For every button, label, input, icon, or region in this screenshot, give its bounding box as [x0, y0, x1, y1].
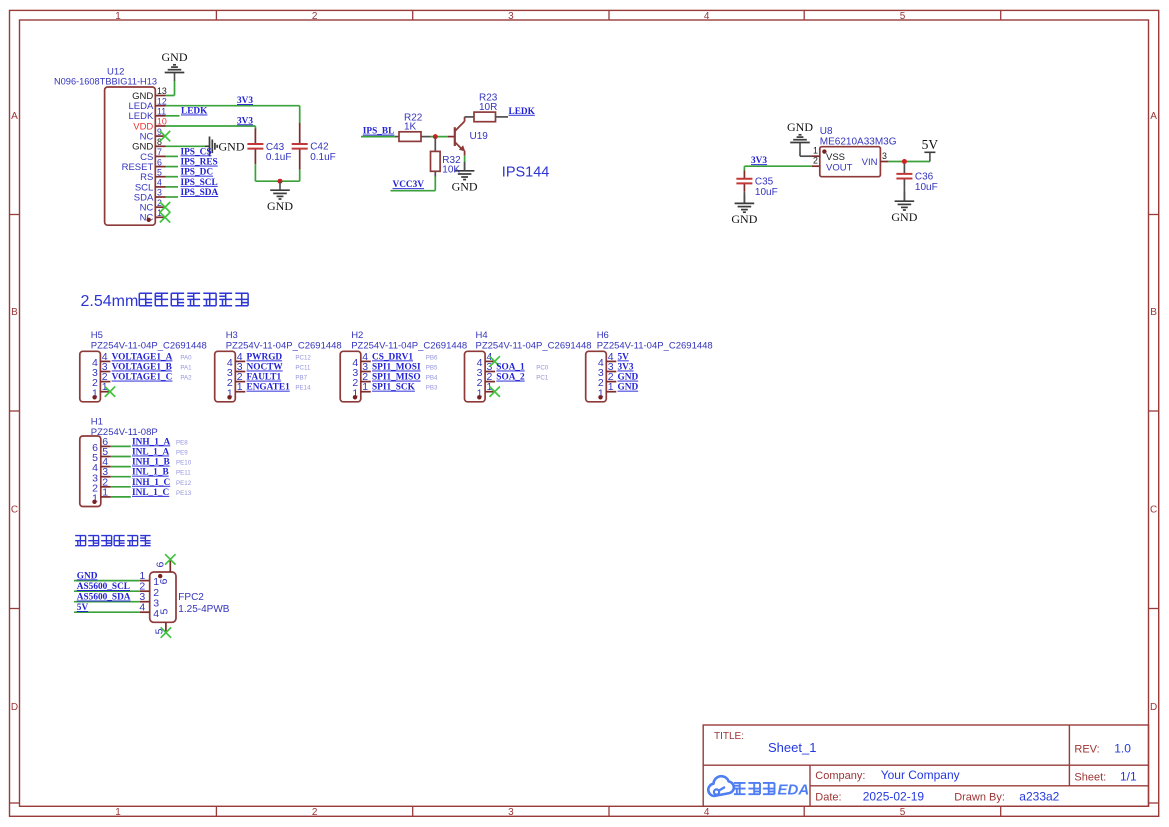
svg-text:PZ254V-11-04P_C2691448: PZ254V-11-04P_C2691448 [476, 340, 592, 351]
ruler ticks top [216, 10, 1000, 20]
net label NOCTW [247, 363, 284, 373]
svg-text:GND: GND [77, 571, 98, 581]
mcu pin name PC11 [295, 365, 311, 372]
svg-text:CS_DRV1: CS_DRV1 [372, 352, 413, 362]
svg-text:LEDK: LEDK [181, 107, 208, 117]
svg-text:PE12: PE12 [176, 480, 192, 487]
svg-text:AS5600_SCL: AS5600_SCL [77, 582, 130, 592]
svg-text:13: 13 [157, 86, 167, 96]
svg-text:5V: 5V [618, 352, 630, 362]
no-connect X H5 pin1 [105, 387, 115, 397]
svg-text:5V: 5V [77, 603, 89, 613]
svg-text:3V3: 3V3 [751, 156, 767, 166]
svg-text:10uF: 10uF [915, 182, 938, 193]
svg-text:6: 6 [157, 157, 162, 167]
svg-text:1: 1 [813, 146, 818, 156]
svg-text:PE9: PE9 [176, 450, 188, 457]
net label 5V [77, 603, 89, 613]
no-connect X H4 pin4 [490, 356, 500, 366]
no-connect X pin1 [160, 212, 170, 222]
net label INH_1_C [132, 478, 170, 488]
svg-text:4: 4 [704, 807, 710, 818]
power flag 5V [922, 137, 939, 162]
ruler letters left [11, 111, 18, 713]
svg-text:SOA_2: SOA_2 [496, 373, 525, 383]
wire H1 INL_1_C [111, 496, 131, 498]
svg-text:PA2: PA2 [180, 375, 192, 382]
svg-text:IPS144: IPS144 [502, 165, 550, 181]
wire pin10 3V3 to C43 [166, 126, 256, 130]
title block frame [703, 725, 1148, 806]
svg-text:2: 2 [312, 807, 318, 818]
connector H2 PZ254V-11-04P_C2691448 [340, 330, 467, 402]
net label INL_1_B [132, 468, 169, 478]
svg-text:VSS: VSS [826, 152, 845, 163]
junction at cap ground [278, 179, 283, 184]
wire 3V3 to U8 VOUT [744, 166, 812, 170]
svg-text:2.54mm: 2.54mm [81, 293, 139, 310]
connector H4 PZ254V-11-04P_C2691448 [465, 330, 592, 402]
svg-text:Date:: Date: [815, 791, 841, 803]
svg-text:3V3: 3V3 [237, 116, 253, 126]
svg-text:PZ254V-11-04P_C2691448: PZ254V-11-04P_C2691448 [597, 340, 713, 351]
svg-text:PWRGD: PWRGD [247, 352, 283, 362]
net label VOLTAGE1_B [112, 363, 172, 373]
mcu pin name PA1 [180, 365, 192, 372]
ruler numbers bottom [115, 807, 906, 818]
svg-text:PB6: PB6 [426, 354, 438, 361]
svg-text:GND: GND [219, 140, 245, 154]
wire U8 VIN to 5V [888, 161, 930, 163]
wire H1 INH_1_B [111, 466, 131, 468]
svg-text:IPS_SCL: IPS_SCL [181, 178, 218, 188]
svg-text:C: C [1150, 505, 1157, 516]
svg-text:PE14: PE14 [295, 385, 311, 392]
no-connect X H4 pin1 [490, 387, 500, 397]
svg-text:Drawn By:: Drawn By: [954, 791, 1005, 803]
mcu pin name PB7 [295, 375, 307, 382]
svg-text:5: 5 [159, 609, 171, 615]
wires pins 7-3 stubs [166, 156, 179, 197]
svg-text:INH_1_A: INH_1_A [132, 437, 171, 447]
capacitor C35 10uF [736, 171, 777, 204]
logo JLCEDA [708, 776, 809, 798]
svg-text:INL_1_A: INL_1_A [132, 448, 169, 458]
net label IPS_SDA [181, 188, 219, 198]
svg-text:INL_1_C: INL_1_C [132, 488, 169, 498]
ruler ticks left [10, 215, 20, 804]
svg-text:PE13: PE13 [176, 490, 192, 497]
mcu pin name PB6 [426, 354, 438, 361]
svg-text:VCC3V: VCC3V [393, 180, 425, 190]
text 2.54mm board-to-board header [81, 293, 249, 310]
svg-text:3V3: 3V3 [618, 363, 634, 373]
svg-text:TITLE:: TITLE: [714, 731, 744, 742]
net label SOA_2 [496, 373, 525, 383]
net label SPI1_MISO [372, 373, 421, 383]
svg-text:ENGATE1: ENGATE1 [247, 383, 291, 393]
svg-text:3V3: 3V3 [237, 96, 253, 106]
net label GND [77, 571, 98, 581]
ruler ticks bottom [216, 806, 1000, 816]
svg-text:U19: U19 [470, 131, 489, 142]
svg-text:FAULT1: FAULT1 [247, 373, 282, 383]
svg-text:PZ254V-11-04P_C2691448: PZ254V-11-04P_C2691448 [226, 340, 342, 351]
svg-text:1/1: 1/1 [1120, 769, 1137, 783]
mcu pin name PC1 [536, 375, 549, 382]
capacitor C42 0.1uF [292, 123, 336, 181]
svg-text:C: C [11, 505, 18, 516]
wire H1 INH_1_C [111, 486, 131, 488]
svg-text:PA1: PA1 [180, 365, 192, 372]
svg-text:a233a2: a233a2 [1019, 789, 1059, 803]
ground GND above U8 pin1 [787, 120, 813, 156]
svg-text:PC12: PC12 [295, 354, 311, 361]
text IPS144 [502, 165, 550, 181]
mcu pin name PC12 [295, 354, 311, 361]
svg-text:5: 5 [900, 807, 906, 818]
svg-text:REV:: REV: [1074, 743, 1099, 755]
wire R22 to base junction [421, 136, 455, 138]
ground GND below C36 [891, 192, 917, 224]
wire IPS_BL to R22 [361, 136, 399, 138]
svg-text:2: 2 [813, 156, 818, 166]
svg-text:10uF: 10uF [755, 187, 778, 198]
svg-text:VOLTAGE1_A: VOLTAGE1_A [112, 352, 173, 362]
mcu pin name PB4 [426, 375, 438, 382]
svg-text:11: 11 [157, 107, 166, 117]
svg-text:PZ254V-11-04P_C2691448: PZ254V-11-04P_C2691448 [91, 340, 207, 351]
svg-text:5: 5 [157, 167, 162, 177]
svg-text:GND: GND [162, 50, 188, 64]
net label 3V3 (U8) [751, 156, 767, 166]
svg-text:INH_1_B: INH_1_B [132, 458, 170, 468]
svg-text:SPI1_MOSI: SPI1_MOSI [372, 363, 421, 373]
svg-text:10R: 10R [479, 102, 497, 113]
svg-text:2: 2 [312, 11, 318, 22]
mcu pin name PA2 [180, 375, 192, 382]
svg-text:GND: GND [267, 199, 293, 213]
ruler letters right [1150, 111, 1157, 713]
ground GND below C43 C42 [267, 181, 293, 213]
svg-text:A: A [11, 111, 18, 122]
net label SOA_1 [496, 363, 525, 373]
net label 3V3 [618, 363, 634, 373]
text magnetic encoder header [75, 536, 150, 546]
ruler ticks right [1149, 215, 1159, 804]
net label INH_1_B [132, 458, 170, 468]
connector H1 PZ254V-11-08P [80, 417, 158, 507]
wire pin11 LEDK stub [166, 115, 180, 117]
svg-text:PB3: PB3 [426, 385, 438, 392]
net label IPS_RES [181, 158, 218, 168]
svg-text:PZ254V-11-04P_C2691448: PZ254V-11-04P_C2691448 [351, 340, 467, 351]
svg-text:PC11: PC11 [295, 365, 311, 372]
svg-text:ME6210A33M3G: ME6210A33M3G [820, 136, 897, 147]
svg-text:3: 3 [508, 11, 514, 22]
mcu pin name PE14 [295, 385, 311, 392]
svg-text:0.1uF: 0.1uF [266, 152, 292, 163]
svg-text:Company:: Company: [815, 770, 865, 782]
svg-text:D: D [1150, 702, 1157, 713]
no-connect X FPC2 pin5 [161, 627, 171, 637]
net label INL_1_C [132, 488, 169, 498]
svg-text:FPC2: FPC2 [178, 592, 204, 603]
wire pin12 3V3 to C42 [166, 106, 300, 123]
svg-text:4: 4 [704, 11, 710, 22]
svg-text:A: A [1150, 111, 1157, 122]
net label VOLTAGE1_C [112, 373, 173, 383]
svg-text:IPS_SDA: IPS_SDA [181, 188, 219, 198]
svg-text:3: 3 [508, 807, 514, 818]
svg-text:SOA_1: SOA_1 [496, 363, 525, 373]
net label PWRGD [247, 352, 283, 362]
svg-text:6: 6 [155, 562, 167, 568]
net label VCC3V [393, 180, 425, 190]
svg-text:1.25-4PWB: 1.25-4PWB [178, 604, 229, 615]
net label 3V3 (pin10) [237, 116, 253, 126]
svg-text:VOUT: VOUT [826, 162, 853, 173]
net label ENGATE1 [247, 383, 291, 393]
wire FPC2 GND [74, 580, 140, 582]
net label AS5600_SCL [77, 582, 130, 592]
svg-text:5: 5 [900, 11, 906, 22]
svg-text:1: 1 [237, 381, 243, 393]
svg-text:6: 6 [158, 578, 170, 584]
svg-text:B: B [1150, 307, 1157, 318]
svg-text:AS5600_SDA: AS5600_SDA [77, 593, 131, 603]
svg-text:GND: GND [618, 383, 639, 393]
svg-text:1: 1 [102, 486, 108, 498]
svg-text:NOCTW: NOCTW [247, 363, 284, 373]
svg-text:SPI1_MISO: SPI1_MISO [372, 373, 421, 383]
svg-text:INH_1_C: INH_1_C [132, 478, 170, 488]
net label FAULT1 [247, 373, 282, 383]
junction VIN C36 [902, 159, 907, 164]
svg-text:PE8: PE8 [176, 439, 188, 446]
svg-text:GND: GND [618, 373, 639, 383]
svg-text:10K: 10K [442, 165, 460, 176]
svg-text:3: 3 [882, 151, 887, 161]
net label IPS_BL [363, 127, 395, 137]
svg-text:7: 7 [157, 147, 162, 157]
net label AS5600_SDA [77, 593, 131, 603]
regulator U8 ME6210A33M3G [812, 126, 897, 177]
svg-text:IPS_BL: IPS_BL [363, 127, 395, 137]
svg-text:GND: GND [731, 212, 757, 226]
connector H6 PZ254V-11-04P_C2691448 [586, 330, 713, 402]
net label LEDK (pin11) [181, 107, 208, 117]
wire R23 to LEDK [496, 116, 509, 118]
svg-text:GND: GND [891, 210, 917, 224]
net label INL_1_A [132, 448, 169, 458]
wire C43 C42 bottom to ground [255, 180, 299, 182]
svg-text:D: D [11, 702, 18, 713]
resistor R23 10R [474, 93, 498, 122]
no-connect X pin9 [160, 131, 170, 141]
mcu pin name PE12 [176, 480, 192, 487]
ground GND right flag at pin8 [205, 137, 245, 157]
wire H1 INL_1_B [111, 476, 131, 478]
svg-text:4: 4 [139, 602, 145, 614]
svg-text:1: 1 [608, 381, 614, 393]
connector FPC2 1.25-4PWB [139, 558, 229, 634]
wire emitter to ground [464, 156, 466, 171]
mcu pin name PE10 [176, 460, 192, 467]
net label GND [618, 373, 639, 383]
svg-text:IPS_CS: IPS_CS [181, 147, 212, 157]
resistor R32 10K [431, 151, 462, 175]
net label CS_DRV1 [372, 352, 413, 362]
junction base node [433, 134, 438, 139]
net label IPS_DC [181, 168, 214, 178]
svg-text:B: B [11, 307, 18, 318]
svg-text:GND: GND [452, 179, 478, 193]
svg-text:0.1uF: 0.1uF [310, 152, 336, 163]
svg-text:PZ254V-11-08P: PZ254V-11-08P [91, 427, 158, 438]
mcu pin name PC0 [536, 365, 549, 372]
svg-text:LEDK: LEDK [509, 107, 536, 117]
capacitor C36 10uF [896, 164, 937, 202]
ground GND below C35 [731, 194, 757, 226]
svg-text:1: 1 [362, 381, 368, 393]
svg-text:VIN: VIN [862, 157, 878, 168]
net label SPI1_SCK [372, 383, 416, 393]
net label LEDK (R23) [509, 107, 536, 117]
wire pin13 to GND [166, 81, 175, 96]
mcu pin name PE11 [176, 470, 191, 477]
svg-text:EDA: EDA [778, 782, 810, 799]
svg-text:PB7: PB7 [295, 375, 307, 382]
svg-text:IPS_DC: IPS_DC [181, 168, 214, 178]
net label IPS_SCL [181, 178, 218, 188]
resistor R22 1K [399, 112, 423, 141]
svg-text:PA0: PA0 [180, 354, 192, 361]
wire FPC2 AS5600_SCL [74, 590, 140, 592]
wire H1 INL_1_A [111, 456, 131, 458]
net label GND [618, 383, 639, 393]
no-connect X pin2 [160, 202, 170, 212]
svg-text:PB4: PB4 [426, 375, 438, 382]
svg-text:VOLTAGE1_B: VOLTAGE1_B [112, 363, 172, 373]
wire R32 to VCC3V [391, 171, 436, 190]
svg-text:1K: 1K [404, 122, 417, 133]
svg-text:PE10: PE10 [176, 460, 192, 467]
svg-text:N096-1608TBBIG11-H13: N096-1608TBBIG11-H13 [54, 77, 157, 88]
svg-text:PC0: PC0 [536, 365, 549, 372]
svg-text:8: 8 [157, 137, 162, 147]
svg-text:1: 1 [115, 807, 121, 818]
ruler numbers top [115, 11, 906, 22]
svg-text:4: 4 [157, 178, 162, 188]
wire pin8 to GND [166, 145, 206, 147]
net label INH_1_A [132, 437, 171, 447]
svg-text:NC: NC [140, 213, 154, 224]
net label IPS_CS [181, 147, 212, 157]
net label VOLTAGE1_A [112, 352, 173, 362]
connector H3 PZ254V-11-04P_C2691448 [215, 330, 342, 402]
svg-text:12: 12 [157, 96, 167, 106]
title block texts [714, 731, 1137, 803]
mcu pin name PB3 [426, 385, 438, 392]
svg-text:1.0: 1.0 [1114, 741, 1131, 755]
wire FPC2 AS5600_SDA [74, 601, 140, 603]
wire collector to R23 [465, 116, 474, 118]
transistor U19 NPN [455, 117, 488, 156]
ground GND top of U12 [162, 50, 188, 81]
mcu pin name PA0 [180, 354, 192, 361]
connector H5 PZ254V-11-04P_C2691448 [80, 330, 207, 402]
connector U12 N096-1608TBBIG11-H13 [54, 67, 167, 226]
wire FPC2 5V [74, 611, 140, 613]
svg-text:1: 1 [115, 11, 121, 22]
wire H1 INH_1_A [111, 445, 131, 447]
no-connect X FPC2 pin6 [165, 554, 175, 564]
svg-text:PC1: PC1 [536, 375, 549, 382]
net label 5V [618, 352, 630, 362]
svg-text:3: 3 [157, 188, 162, 198]
mcu pin name PE9 [176, 450, 188, 457]
net label SPI1_MOSI [372, 363, 421, 373]
ground GND below U19 [452, 162, 478, 194]
svg-text:VOLTAGE1_C: VOLTAGE1_C [112, 373, 173, 383]
svg-text:Your Company: Your Company [881, 768, 960, 782]
svg-text:2025-02-19: 2025-02-19 [863, 789, 925, 803]
svg-text:Sheet_1: Sheet_1 [768, 740, 816, 755]
svg-text:10: 10 [157, 117, 167, 127]
svg-text:PB5: PB5 [426, 365, 438, 372]
mcu pin name PB5 [426, 365, 438, 372]
wire junction to R32 [434, 137, 436, 152]
mcu pin name PE13 [176, 490, 192, 497]
svg-text:SPI1_SCK: SPI1_SCK [372, 383, 416, 393]
svg-text:IPS_RES: IPS_RES [181, 158, 218, 168]
svg-text:INL_1_B: INL_1_B [132, 468, 169, 478]
svg-text:5V: 5V [922, 137, 939, 152]
svg-text:PE11: PE11 [176, 470, 191, 477]
capacitor C43 0.1uF [247, 129, 291, 182]
svg-text:GND: GND [787, 120, 813, 134]
svg-text:Sheet:: Sheet: [1074, 771, 1106, 783]
mcu pin name PE8 [176, 439, 188, 446]
net label 3V3 (pin12) [237, 96, 253, 106]
